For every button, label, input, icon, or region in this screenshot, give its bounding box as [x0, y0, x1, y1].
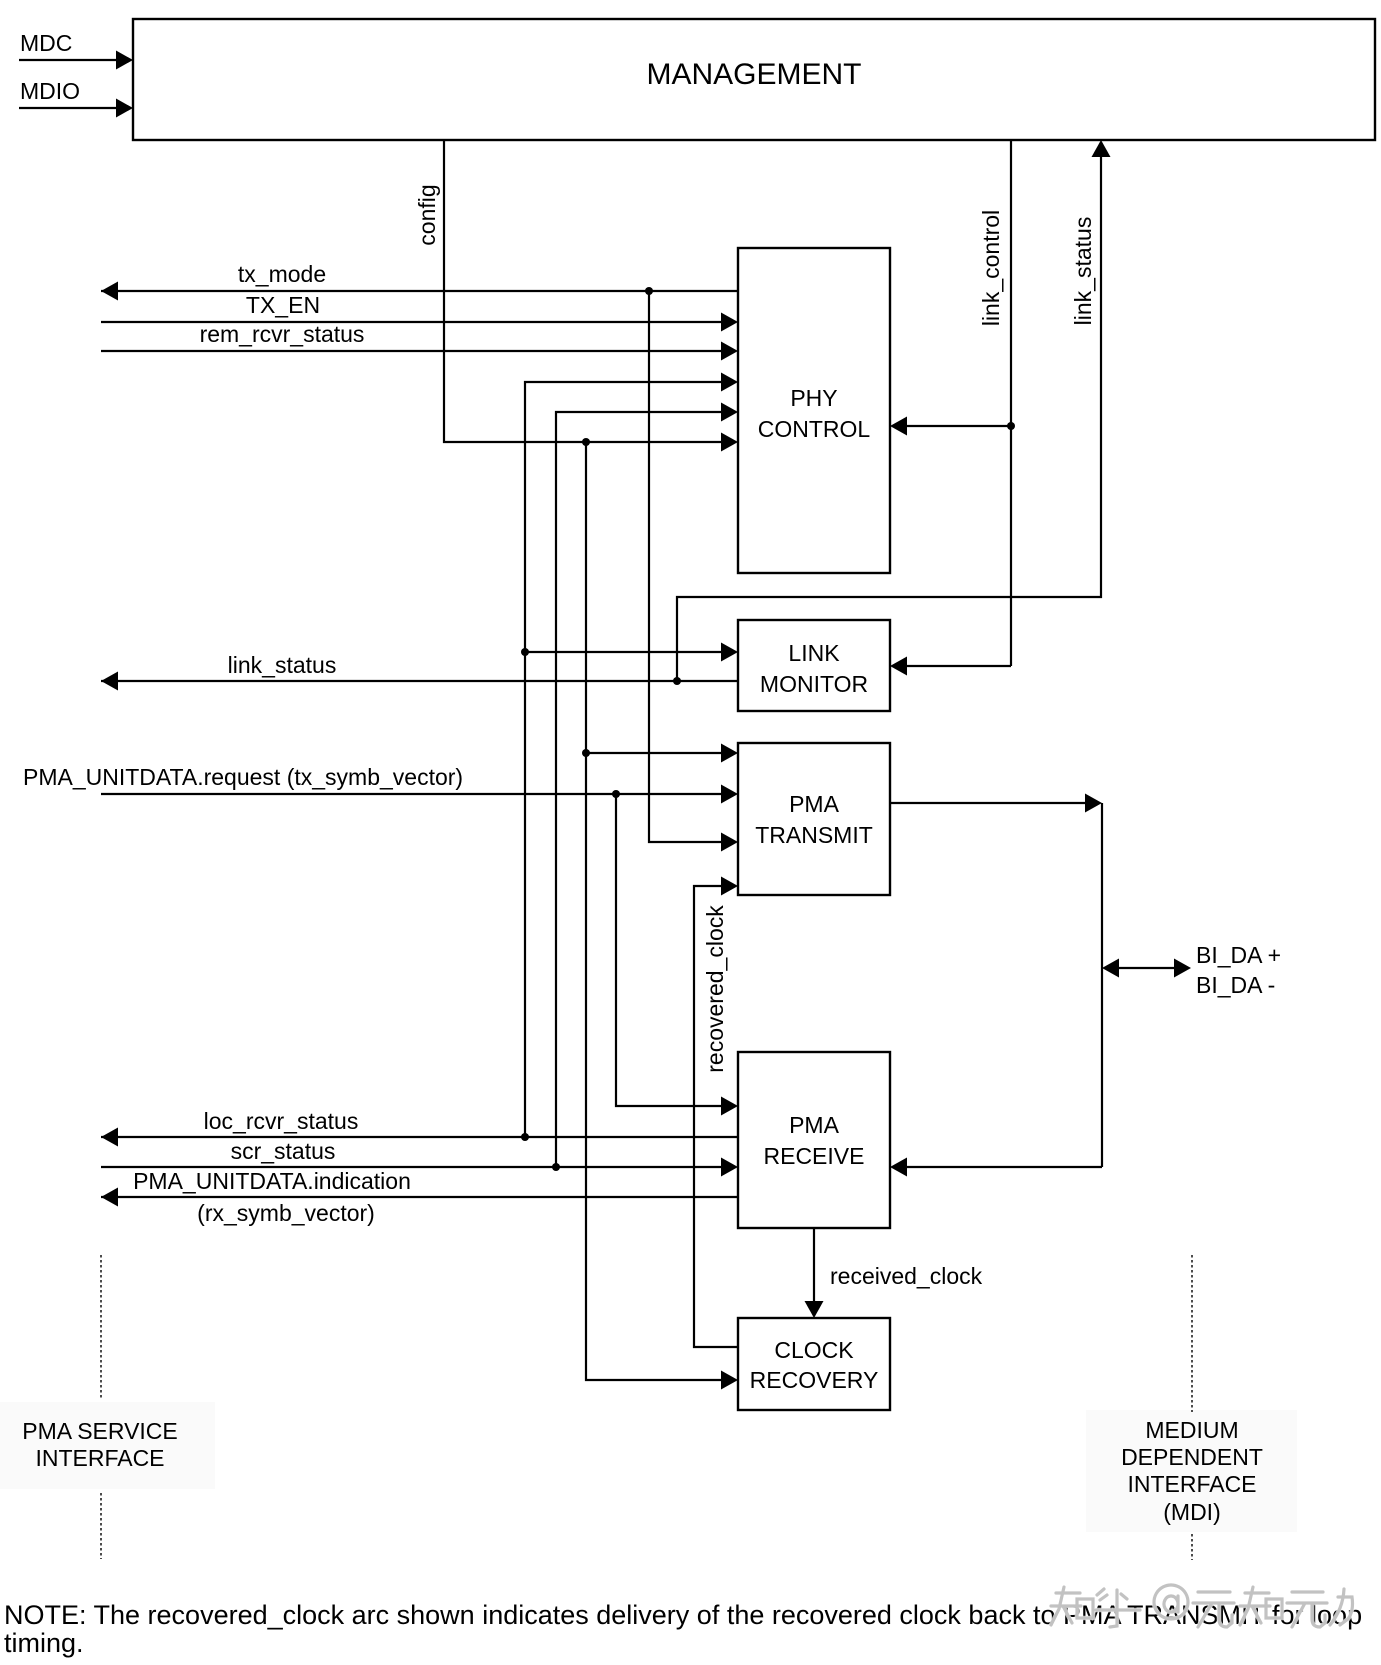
- svg-text:DEPENDENT: DEPENDENT: [1121, 1444, 1263, 1470]
- svg-text:CLOCK: CLOCK: [774, 1337, 854, 1363]
- svg-text:MONITOR: MONITOR: [760, 671, 868, 697]
- svg-text:link_status: link_status: [228, 652, 337, 678]
- svg-text:CONTROL: CONTROL: [758, 416, 871, 442]
- wire MDC into MANAGEMENT: [19, 30, 133, 70]
- wire rem_rcvr_status into PHY CONTROL: [101, 321, 738, 361]
- block MANAGEMENT: [133, 19, 1375, 140]
- node config tap: [582, 438, 590, 446]
- interface shading left: [0, 1402, 215, 1489]
- node loc_rcvr_status tap lower: [521, 1133, 529, 1141]
- label PMA SERVICE INTERFACE: [22, 1418, 178, 1471]
- svg-text:LINK: LINK: [788, 640, 840, 666]
- svg-text:BI_DA -: BI_DA -: [1196, 972, 1275, 998]
- note text: [4, 1600, 1362, 1658]
- wire scr_status into PMA RECEIVE: [101, 1138, 738, 1177]
- svg-text:MDIO: MDIO: [20, 78, 80, 104]
- wire MDIO into MANAGEMENT: [19, 78, 133, 118]
- block PMA RECEIVE: [738, 1052, 890, 1228]
- label MEDIUM DEPENDENT INTERFACE (MDI): [1121, 1417, 1263, 1525]
- svg-text:recovered_clock: recovered_clock: [702, 905, 728, 1073]
- wire link_status up to MANAGEMENT: [677, 140, 1111, 681]
- watermark zhihu: [1051, 1585, 1353, 1627]
- svg-text:MEDIUM: MEDIUM: [1145, 1417, 1238, 1443]
- block LINK MONITOR: [738, 620, 890, 711]
- node tx_symb tap: [612, 790, 620, 798]
- svg-text:scr_status: scr_status: [231, 1138, 336, 1164]
- node link_status tap: [673, 677, 681, 685]
- block CLOCK RECOVERY: [738, 1318, 890, 1410]
- svg-text:INTERFACE: INTERFACE: [35, 1445, 164, 1471]
- block PMA TRANSMIT: [738, 743, 890, 895]
- svg-text:PHY: PHY: [790, 385, 837, 411]
- wire link_control into LINK MONITOR: [890, 657, 1011, 676]
- wire loc_rcvr_status from PMA RECEIVE to left: [101, 1108, 738, 1147]
- MDI dashed line: [1191, 1255, 1193, 1560]
- svg-text:config: config: [414, 184, 440, 245]
- wire scr_status riser into PHY CONTROL: [556, 403, 738, 1168]
- svg-text:PMA_UNITDATA.request (tx_symb_: PMA_UNITDATA.request (tx_symb_vector): [23, 764, 463, 790]
- svg-text:(MDI): (MDI): [1163, 1499, 1220, 1525]
- PMA service interface dashed line: [100, 1255, 102, 1559]
- svg-text:PMA: PMA: [789, 791, 840, 817]
- wire MDI into PMA RECEIVE: [890, 1158, 1102, 1177]
- svg-text:TRANSMIT: TRANSMIT: [755, 822, 873, 848]
- wire PMA_UNITDATA.indication from PMA RECEIVE to left: [101, 1168, 738, 1226]
- svg-text:loc_rcvr_status: loc_rcvr_status: [204, 1108, 359, 1134]
- wire tx_symb riser into PMA RECEIVE: [616, 794, 738, 1116]
- svg-text:MANAGEMENT: MANAGEMENT: [646, 58, 861, 91]
- svg-text:PMA: PMA: [789, 1112, 840, 1138]
- svg-text:RECOVERY: RECOVERY: [750, 1367, 879, 1393]
- wire BI_DA bidirectional: [1102, 942, 1281, 998]
- wire TX_EN into PHY CONTROL: [101, 292, 738, 332]
- wire loc_rcvr_status branch into LINK MONITOR: [525, 643, 738, 662]
- wire PMA_UNITDATA.request into PMA TRANSMIT: [23, 764, 738, 804]
- svg-text:timing.: timing.: [4, 1628, 84, 1658]
- svg-text:link_control: link_control: [978, 210, 1004, 326]
- wire link_control into PHY CONTROL: [890, 417, 1011, 436]
- wire loc_rcvr_status riser into PHY CONTROL: [525, 373, 738, 1138]
- node config tap at PMA TRANSMIT: [582, 749, 590, 757]
- svg-text:BI_DA +: BI_DA +: [1196, 942, 1281, 968]
- node link_control tap: [1007, 422, 1015, 430]
- svg-text:PMA SERVICE: PMA SERVICE: [22, 1418, 178, 1444]
- wire link_control from MANAGEMENT: [978, 140, 1011, 666]
- wire recovered_clock from CLOCK RECOVERY to PMA TRANSMIT: [694, 877, 738, 1348]
- wire config riser to PMA TRANSMIT and CLOCK RECOVERY: [586, 442, 738, 1390]
- svg-text:tx_mode: tx_mode: [238, 261, 326, 287]
- node tx_mode tap: [645, 287, 653, 295]
- wire PMA TRANSMIT to MDI: [890, 794, 1102, 1168]
- wire config from MANAGEMENT to PHY CONTROL: [414, 140, 738, 452]
- wire tx_mode riser into PMA TRANSMIT: [649, 291, 738, 852]
- svg-text:MDC: MDC: [20, 30, 72, 56]
- svg-text:rem_rcvr_status: rem_rcvr_status: [200, 321, 365, 347]
- svg-text:PMA_UNITDATA.indication: PMA_UNITDATA.indication: [133, 1168, 411, 1194]
- wire tx_mode from PHY CONTROL to left: [101, 261, 738, 301]
- svg-text:link_status: link_status: [1070, 217, 1096, 326]
- node loc_rcvr_status tap upper: [521, 648, 529, 656]
- block PHY CONTROL: [738, 248, 890, 573]
- wire link_status from LINK MONITOR to left: [101, 652, 738, 691]
- svg-text:INTERFACE: INTERFACE: [1127, 1471, 1256, 1497]
- wire received_clock from PMA RECEIVE to CLOCK RECOVERY: [805, 1228, 983, 1318]
- svg-text:received_clock: received_clock: [830, 1263, 983, 1289]
- node scr_status tap: [552, 1163, 560, 1171]
- interface shading right: [1086, 1410, 1297, 1532]
- svg-text:TX_EN: TX_EN: [246, 292, 320, 318]
- svg-text:(rx_symb_vector): (rx_symb_vector): [197, 1200, 375, 1226]
- svg-text:RECEIVE: RECEIVE: [764, 1143, 865, 1169]
